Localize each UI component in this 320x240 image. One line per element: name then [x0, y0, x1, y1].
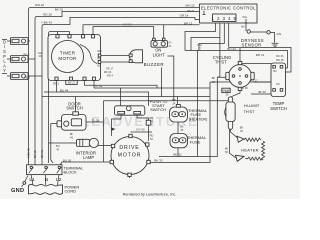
power cord — [29, 184, 80, 194]
wire timer to buzzer lower — [101, 61, 130, 63]
wire GY 50 — [131, 131, 153, 133]
wire temp switch right bottom — [280, 91, 282, 94]
wire timer B2 drop — [70, 81, 72, 85]
wire on-light area drop — [161, 68, 163, 97]
motor relay switch box — [115, 106, 145, 115]
wire BK 38 from temp switch — [251, 91, 274, 94]
drive motor — [110, 134, 150, 176]
wire relay feed drop — [120, 88, 122, 106]
wire on-light right tab tap — [163, 25, 165, 39]
label RD 52 — [150, 133, 154, 140]
label BK 35 — [180, 125, 184, 133]
wire door switch left — [51, 124, 57, 164]
wire to timer terminal T1 — [49, 32, 70, 164]
label GY 41 — [168, 41, 172, 48]
wire fuse2 drop — [177, 148, 179, 157]
wire between thermal fuses — [177, 122, 179, 134]
label BK 35 boxed — [222, 88, 230, 92]
wire sensor to ground — [271, 33, 275, 43]
wire hi-limit top — [231, 91, 240, 97]
wire ground lead — [22, 176, 29, 187]
heater bottom connector flag — [236, 155, 245, 161]
wire BK 32 bottom run — [159, 77, 226, 157]
temp switch block — [270, 63, 287, 111]
wire control pin 1 drop — [185, 22, 216, 51]
wire RD 18 — [35, 12, 200, 166]
wire BU 44 mid run — [44, 92, 149, 106]
timer motor M1 — [52, 41, 98, 73]
timer block — [48, 35, 101, 81]
label BR 46 — [70, 132, 74, 139]
wire heater feed lower — [230, 101, 236, 158]
wire timer to buzzer upper — [101, 55, 130, 57]
wire PU 17 run — [210, 81, 271, 83]
wire door switch top — [75, 97, 77, 113]
wire riser x197 — [197, 51, 199, 97]
wire y88 run — [94, 81, 210, 89]
inline connector on motor feed wire — [146, 120, 151, 125]
wire RD 41 run to temp switch — [185, 51, 288, 69]
wire WH 22 (left vertical to top run into electronic control) — [29, 8, 200, 166]
wire hi-limit to heater — [231, 129, 238, 138]
wire sensor link — [251, 31, 267, 33]
label BR 24 relay — [149, 116, 153, 123]
wire relay right leg to motor — [137, 115, 149, 141]
display connector row 2 — [7, 56, 35, 63]
wire dryness sensor feed — [245, 19, 247, 31]
heater element — [241, 138, 264, 160]
label BK 36 heater — [240, 125, 244, 132]
on light — [151, 38, 168, 57]
wire to cycling thermostat top — [239, 48, 241, 62]
label BK 32 riser — [212, 76, 216, 84]
control terminal strip 1 2 3 4 5 — [211, 14, 247, 23]
hi-limit thermostat — [225, 97, 260, 130]
scan noise overlay — [0, 0, 1, 1]
wire BU 44 upper run to temp switch — [229, 48, 291, 73]
wire control pin 2 drop — [191, 22, 220, 78]
label BR 27 boxed — [66, 80, 77, 84]
label BR 24 fuse — [172, 98, 176, 106]
thermal fuse (heater) — [170, 105, 208, 123]
wire cycling tstat to temp switch — [242, 63, 272, 65]
wire long run y96 — [42, 96, 210, 98]
ground terminal ring — [23, 182, 26, 185]
drive motor arrow — [111, 127, 116, 131]
wire riser x103 — [103, 101, 105, 162]
wire relay left leg to motor — [112, 115, 122, 136]
wire BU 26 to terminal block — [59, 162, 112, 167]
wire long run y100 — [104, 100, 233, 102]
label BU 40 — [56, 144, 60, 151]
wire GY 24 from timer T2 to on-light — [93, 27, 154, 39]
wire door switch right — [86, 121, 104, 123]
dryness sensor — [241, 30, 270, 48]
display connector row 3 — [7, 73, 42, 80]
wire BU 17 — [254, 81, 271, 83]
wire motor to interior lamp — [98, 145, 112, 147]
buzzer — [129, 50, 164, 67]
electronic control box — [200, 4, 258, 23]
interior lamp — [76, 138, 98, 160]
cycling thermostat — [213, 55, 255, 91]
push to start switch label — [150, 99, 168, 112]
wire terminal L1 to cord — [31, 175, 33, 185]
label BK 36 upper — [225, 89, 229, 96]
wire terminal N to cord — [45, 175, 47, 185]
terminal block — [27, 165, 85, 183]
wire control pin 3 drop — [199, 22, 224, 51]
thermal fuse — [170, 134, 207, 148]
display connector row 1 — [7, 38, 30, 45]
wire Y-BK 43 — [42, 18, 213, 166]
display — [2, 39, 7, 73]
wire BR 13 from timer T3 to electronic control — [83, 25, 200, 35]
label BK 56 — [225, 147, 229, 154]
ground symbol — [272, 43, 279, 47]
wire terminal L2 to cord — [58, 175, 60, 185]
wire motor bottom stub — [129, 175, 131, 178]
door switch — [57, 101, 86, 130]
wire riser x197 down — [197, 97, 199, 157]
wire buzzer area drop — [168, 56, 174, 101]
wire control pin 4 drop — [228, 22, 230, 48]
heater top connector flag — [237, 136, 244, 142]
timer side labels — [97, 49, 101, 68]
wire timer B1 drop — [56, 81, 58, 93]
wire lamp lead — [49, 142, 77, 144]
wire BK 33 bottom run — [149, 82, 210, 163]
wire BR 24 to thermal fuse heater — [177, 97, 179, 105]
rotated wire labels above terminal block — [27, 148, 45, 158]
wire TL 43 run from timer to motor relay — [85, 81, 158, 89]
